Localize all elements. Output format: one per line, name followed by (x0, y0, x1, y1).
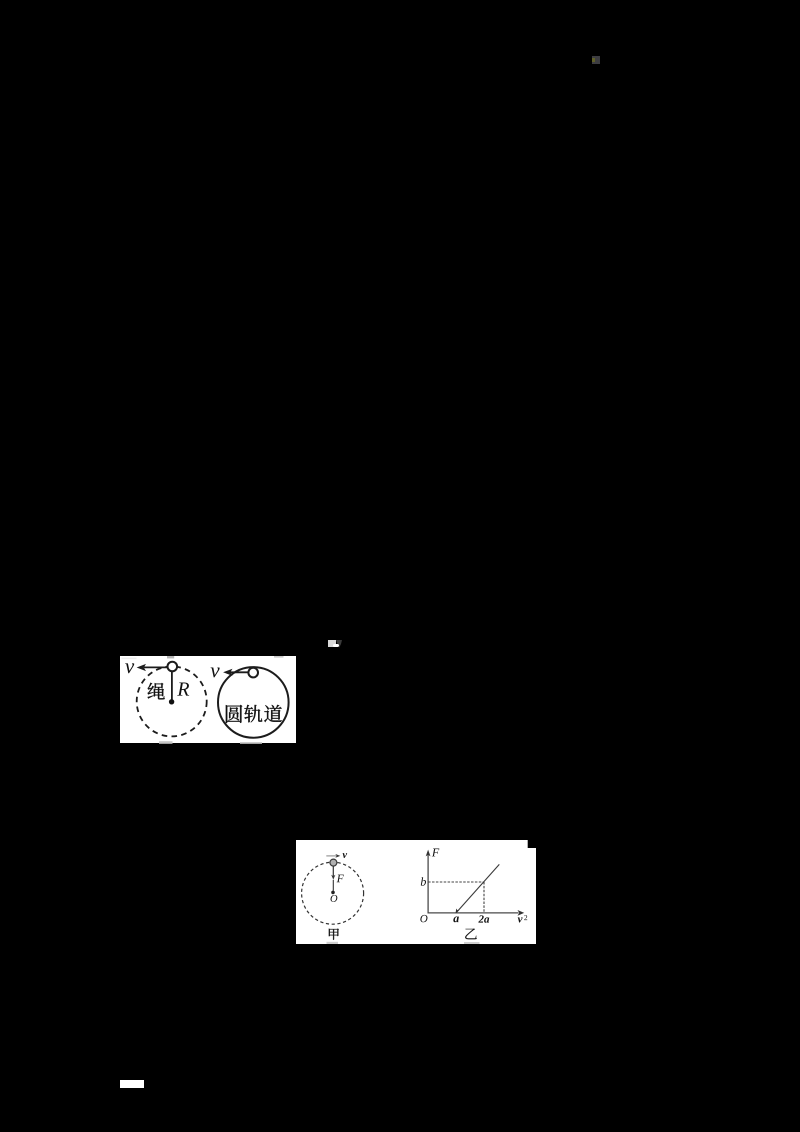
tiny toolbar artifact icon top-right (592, 56, 600, 64)
label 乙 (465, 928, 477, 939)
gray ball (330, 859, 337, 866)
label 圆 (226, 704, 242, 722)
dark triangle of cursor artifact (336, 640, 342, 648)
radius line to center (332, 880, 334, 891)
velocity arrow (right figure) (229, 671, 248, 673)
x axis (v2) (428, 912, 519, 914)
label R (177, 682, 189, 695)
velocity arrow (figure 甲) (326, 855, 336, 857)
y axis (F) (427, 854, 429, 913)
label F (graph) (432, 848, 439, 856)
scan smudge bottom left (159, 741, 173, 744)
label 甲 (329, 928, 339, 939)
dashed line horizontal at b (428, 881, 484, 883)
small white bar bottom-left (120, 1080, 144, 1088)
scan smudge top edge left (121, 657, 136, 659)
dashed circle (figure 甲) (302, 862, 364, 924)
figure 2 white panel (ball on circle + F vs v2 graph) (296, 840, 536, 944)
label a (453, 916, 459, 922)
label v squared (518, 917, 523, 922)
dashed line vertical at 2a (483, 882, 485, 913)
small arrow foot of sloped line (456, 908, 460, 913)
rope line R (171, 671, 173, 702)
center dot (169, 699, 174, 704)
ball on rope (167, 661, 177, 671)
black notch top-right corner (528, 840, 536, 848)
label b (421, 877, 426, 885)
label v (right figure) (210, 667, 219, 677)
scan smudge top right (274, 656, 284, 658)
label 绳 (rope) (147, 682, 164, 699)
velocity arrow (left figure) (144, 666, 167, 668)
sloped graph line (456, 864, 499, 912)
scan smudge top center (167, 656, 174, 658)
center dot O (331, 890, 335, 894)
white blob of cursor artifact (333, 644, 340, 647)
force arrow F (332, 866, 334, 876)
label v (left figure) (125, 663, 134, 673)
label 2a (478, 915, 483, 922)
solid circle (circular track) (218, 667, 289, 738)
label O (graph origin) (420, 915, 427, 922)
cursor artifact left of figure row (328, 640, 336, 648)
ball on track (248, 667, 258, 677)
label v (figure 甲) (342, 853, 347, 858)
label 轨 (244, 704, 262, 721)
label O (figure 甲) (331, 895, 338, 902)
scan smudge bottom right (240, 742, 262, 744)
dashed circle (rope path) (136, 666, 206, 736)
label F (figure 甲) (337, 874, 344, 882)
scan smudge bottom under 乙 (464, 942, 480, 944)
olive mark inside artifact icon (592, 58, 594, 63)
label 道 (264, 704, 282, 721)
figure 1 white panel (rope + circular track) (120, 656, 296, 744)
scan smudge bottom under 甲 (327, 942, 339, 945)
